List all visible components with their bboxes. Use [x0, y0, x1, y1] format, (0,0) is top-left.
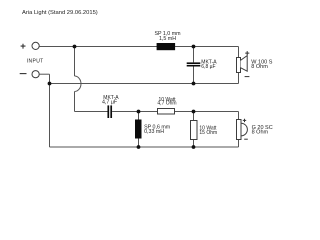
wire top rail [39, 46, 238, 48]
speaker W1 woofer W 100 S [237, 56, 248, 73]
wire woofer bottom stub [238, 73, 240, 84]
svg-text:0,33 mH: 0,33 mH [144, 129, 164, 135]
wire bottom rail [50, 146, 239, 148]
wire woofer return rail [50, 83, 239, 85]
wire L2 top stub [138, 112, 140, 120]
L2 value label [144, 125, 171, 136]
junction dot top rail branch [73, 45, 77, 49]
inductor L2 SP 0,6 mm 0,33 mH [135, 120, 142, 139]
speaker T1 tweeter G 20 SC [237, 120, 248, 140]
wire L2 bottom stub [138, 139, 140, 148]
wire left vertical [49, 74, 51, 147]
wire tweeter top stub [238, 112, 240, 120]
tweeter minus label [244, 138, 248, 140]
minus terminal label [20, 73, 27, 75]
C2 value label [102, 95, 119, 106]
wire branch vertical upper [74, 47, 76, 77]
junction dot minus branch [48, 82, 52, 86]
C1 value label [201, 60, 217, 71]
junction dot return rail C1 [192, 82, 196, 86]
L1 value label [154, 31, 181, 42]
wire R2 bottom stub [193, 140, 195, 148]
svg-text:1,5 mH: 1,5 mH [159, 36, 176, 42]
R2 value label [199, 125, 217, 136]
capacitor C2 MKT-A 4,7 uF [108, 105, 111, 118]
wire right vertical to woofer [238, 47, 240, 58]
svg-text:Aria Light (Stand 29.06.2015): Aria Light (Stand 29.06.2015) [22, 10, 98, 16]
inductor L1 SP 1,0 mm 1,5 mH [157, 43, 176, 50]
svg-text:4,7 µF: 4,7 µF [102, 99, 118, 105]
woofer plus label [245, 51, 249, 55]
wire right vertical to tweeter bottom [238, 140, 240, 148]
svg-text:4,7 Ohm: 4,7 Ohm [157, 101, 176, 107]
woofer minus label [245, 76, 250, 78]
R1 value label [157, 97, 176, 107]
svg-text:8 Ohm: 8 Ohm [251, 64, 268, 70]
junction dot mid rail R2 [192, 110, 196, 114]
tweeter value label [252, 125, 273, 136]
woofer value label [251, 59, 272, 70]
resistor R1 10 Watt 4,7 Ohm [158, 109, 175, 115]
tweeter plus label [243, 119, 246, 122]
svg-text:6,8 µF: 6,8 µF [201, 64, 215, 70]
minus input terminal [32, 71, 39, 78]
junction dot top rail C1 [192, 45, 196, 49]
wire minus stub [39, 73, 49, 75]
resistor R2 10 Watt 15 Ohm [191, 121, 198, 140]
wire C1 top stub [193, 47, 195, 63]
wire R2 top stub [193, 112, 195, 121]
wire mid rail center [112, 111, 157, 113]
plus input terminal [32, 42, 39, 49]
svg-text:INPUT: INPUT [27, 59, 44, 65]
wire mid rail left [75, 111, 108, 113]
wire branch vertical lower [74, 92, 76, 112]
svg-text:15 Ohm: 15 Ohm [199, 130, 217, 136]
junction dot mid rail L2 [137, 110, 141, 114]
wire C1 bottom stub [193, 67, 195, 84]
junction dot bottom rail R2 [192, 145, 196, 149]
wire mid rail right [175, 111, 239, 113]
svg-text:8 Ohm: 8 Ohm [252, 130, 269, 136]
wire hop over return rail [75, 76, 81, 92]
plus terminal label [21, 44, 26, 49]
junction dot bottom rail L2 [137, 145, 141, 149]
capacitor C1 MKT-A 6,8 uF [187, 63, 201, 65]
